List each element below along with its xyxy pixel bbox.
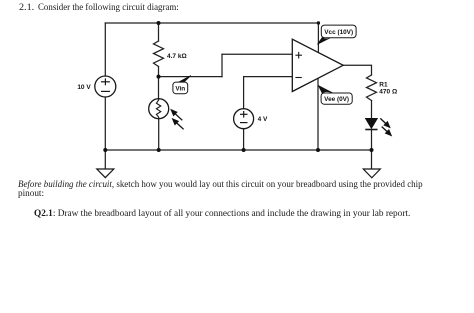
op-amp U1 [292,39,343,91]
wire resistor bottom to Vin node [158,67,160,78]
photoresistor light arrows [171,110,183,129]
wire left from rail to V1 top [104,23,106,76]
wire jog up [221,54,223,76]
junction node dots [103,21,373,152]
wire resistor top [158,23,160,41]
wire bottom rail [105,149,371,151]
voltage source V2 4V [234,109,254,129]
resistor R1 zigzag [367,75,377,101]
resistor 4.7k zigzag [154,41,164,67]
wire R1 to LED [371,101,373,119]
svg-text:Vcc (10V): Vcc (10V) [324,29,353,36]
wire Vee pin [317,78,319,150]
svg-text:470 Ω: 470 Ω [379,89,397,96]
LED D1 [365,118,377,129]
wire to op-amp minus input [244,76,293,78]
svg-text:4.7 kΩ: 4.7 kΩ [167,53,187,60]
wire op-amp output [343,65,371,75]
wire V1 bottom to ground rail [104,97,106,150]
wire right ground stub [371,150,373,169]
question text [34,208,410,218]
title text [19,2,34,12]
paragraph text [18,179,423,189]
wire 4V source bottom [243,129,245,150]
svg-text:Vee (0V): Vee (0V) [324,96,349,103]
callout Vee (0V) [318,85,352,104]
voltage source V1 10V [95,76,116,97]
wire to op-amp plus input [222,53,292,55]
wire Vin node down to photoresistor [158,77,160,99]
wire top rail [105,22,318,24]
photoresistor LDR [149,99,169,119]
svg-text:Vin: Vin [175,85,185,92]
svg-text:4 V: 4 V [258,116,268,123]
wire Vcc pin [317,23,319,53]
wire left ground stub [104,150,106,169]
wire 4V source top [243,77,245,109]
ground left [97,169,114,178]
ground right [363,169,380,178]
svg-text:R1: R1 [379,81,388,88]
wire LED to rail [371,129,373,150]
wire photoresistor bottom [158,119,160,150]
wire Vin node to jog [159,76,223,78]
callout Vcc (10V) [317,25,356,44]
svg-text:10 V: 10 V [77,84,91,91]
LED light arrows [380,118,391,135]
callout Vin [173,76,191,94]
